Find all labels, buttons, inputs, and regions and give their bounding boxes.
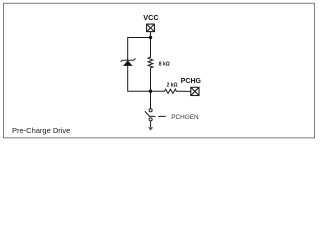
- svg-text:VCC: VCC: [143, 13, 159, 22]
- svg-text:2 kΩ: 2 kΩ: [167, 82, 178, 88]
- svg-text:8 kΩ: 8 kΩ: [159, 62, 170, 68]
- svg-text:Pre-Charge Drive: Pre-Charge Drive: [12, 126, 70, 135]
- svg-text:PCHG: PCHG: [181, 78, 202, 85]
- svg-text:PCHGEN: PCHGEN: [171, 114, 199, 121]
